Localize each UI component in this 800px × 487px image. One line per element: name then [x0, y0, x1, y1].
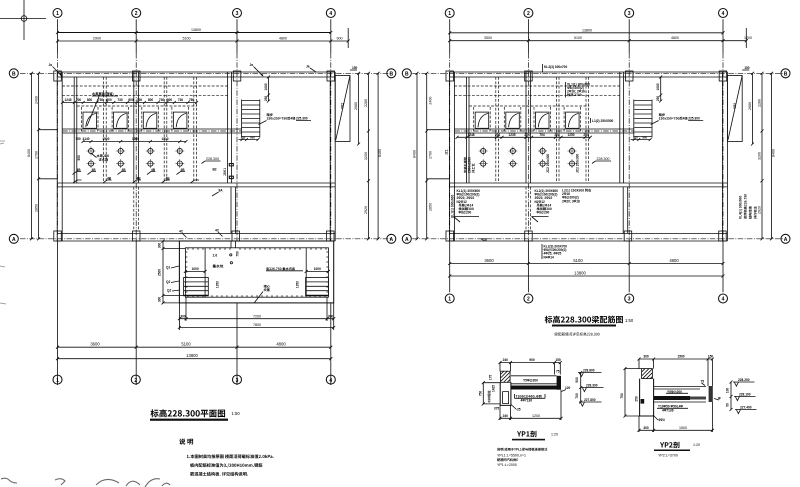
svg-text:700: 700 [575, 393, 579, 399]
svg-text:227.400: 227.400 [740, 406, 752, 410]
svg-text:2850: 2850 [429, 203, 433, 211]
svg-text:2920: 2920 [758, 206, 762, 214]
svg-text:1:50: 1:50 [232, 411, 241, 416]
svg-text:3500: 3500 [484, 36, 492, 40]
svg-text:150: 150 [708, 355, 714, 359]
svg-text:5100: 5100 [573, 258, 583, 263]
bottom grid bubble 3 [233, 375, 242, 384]
sump pit inner wall [185, 248, 328, 297]
svg-text:4B: 4B [151, 168, 156, 172]
grid bubble B left of right plan [402, 69, 411, 78]
svg-text:1000: 1000 [192, 267, 199, 271]
svg-text:2Φ20; 3Φ18: 2Φ20; 3Φ18 [562, 199, 580, 203]
svg-text:2000x2000: 2000x2000 [468, 157, 472, 173]
svg-text:175: 175 [489, 375, 493, 381]
svg-text:4: 4 [722, 11, 725, 17]
svg-text:700: 700 [76, 98, 82, 102]
YP2 left dim [624, 369, 626, 416]
svg-text:8400: 8400 [413, 150, 417, 158]
svg-text:240: 240 [503, 414, 509, 418]
YP1 title [517, 431, 536, 438]
svg-text:240: 240 [503, 358, 509, 362]
top dimension row total [58, 28, 331, 33]
svg-text:900: 900 [529, 358, 535, 362]
svg-text:2500: 2500 [158, 269, 162, 276]
left edge small marks [0, 141, 6, 304]
svg-text:900: 900 [337, 37, 343, 41]
grid bubble 2 top [132, 9, 141, 54]
svg-text:Y5Φ@200: Y5Φ@200 [523, 378, 538, 382]
svg-text:JC2 250x300: JC2 250x300 [575, 154, 579, 173]
YP2 right vertical dim [730, 382, 732, 410]
svg-text:1350: 1350 [295, 281, 299, 288]
svg-text:204: 204 [583, 133, 589, 137]
svg-text:B: B [12, 72, 16, 78]
svg-text:JSK1: JSK1 [223, 168, 227, 176]
svg-text:1510: 1510 [161, 137, 168, 141]
svg-text:4: 4 [329, 11, 332, 17]
top dimension row segments [56, 28, 350, 48]
svg-text:41B: 41B [481, 238, 488, 242]
sump 1000 dim right [305, 267, 330, 273]
svg-text:8400: 8400 [27, 149, 31, 157]
svg-text:8A: 8A [219, 189, 224, 193]
YP1 top dim [500, 362, 561, 364]
svg-text:1700: 1700 [34, 151, 38, 159]
svg-text:300: 300 [158, 297, 162, 303]
right plan right mid dim [758, 72, 764, 241]
svg-text:2850: 2850 [34, 204, 38, 212]
svg-text:13800: 13800 [191, 28, 201, 32]
svg-text:228.100: 228.100 [739, 393, 751, 397]
YP2 elevation flags [733, 382, 755, 386]
svg-text:2: 2 [134, 378, 137, 384]
svg-text:75: 75 [701, 380, 705, 384]
beam text cluster 3 [562, 189, 591, 204]
rotated labels beside bolts [464, 154, 580, 173]
svg-text:3600: 3600 [484, 258, 494, 263]
svg-text:Q1: Q1 [166, 266, 170, 270]
svg-text:2: 2 [135, 11, 138, 17]
YP1 beam bar [511, 386, 561, 390]
svg-text:228.200: 228.200 [738, 378, 750, 382]
right plan base geometry [412, 53, 783, 241]
svg-text:100: 100 [726, 388, 730, 394]
grid bubble A right of left plan [387, 234, 396, 243]
grid bubble 1 top-left plan [53, 9, 62, 54]
svg-text:8400: 8400 [378, 149, 382, 157]
right outer dim 8400 [377, 72, 382, 241]
bottom dim row total [56, 353, 332, 360]
bottom grid bubble 1 [53, 375, 62, 384]
sump 1000 dim left [184, 267, 207, 273]
svg-text:B2: B2 [213, 168, 217, 172]
right canopy dim [354, 72, 360, 146]
svg-text:2Φ16; 2Φ16: 2Φ16; 2Φ16 [567, 90, 585, 94]
grid bubble 3 top [625, 9, 634, 54]
svg-text:730: 730 [159, 98, 165, 102]
right plan pad dim row [456, 133, 592, 139]
svg-text:800: 800 [106, 98, 112, 102]
svg-text:4800: 4800 [671, 36, 679, 40]
svg-text:4140: 4140 [82, 137, 89, 141]
bottom grid bubble 4 [326, 375, 335, 384]
svg-text:150: 150 [555, 358, 561, 362]
YP2 slab lines [654, 387, 706, 389]
svg-text:Q2: Q2 [167, 289, 171, 293]
rotated beam note block right side [739, 194, 757, 219]
svg-text:N2Φ12: N2Φ12 [535, 200, 545, 204]
bolt dim row [75, 137, 187, 161]
left outer dim 8400 [27, 72, 33, 241]
faint pencil marks bottom left [1, 478, 170, 487]
svg-text:YPL1:L=5500,n=1: YPL1:L=5500,n=1 [497, 454, 526, 458]
svg-text:227.800: 227.800 [584, 398, 596, 402]
svg-text:1425: 1425 [492, 385, 496, 392]
label 41B on bottom wall [481, 238, 488, 242]
svg-text:228.300: 228.300 [206, 157, 219, 161]
svg-text:B: B [784, 72, 788, 78]
YP2 title [660, 442, 679, 449]
grid bubble A right of right plan [781, 234, 790, 243]
sump pit extension outer wall [179, 241, 333, 303]
svg-text:75: 75 [556, 370, 560, 374]
svg-text:800: 800 [148, 98, 154, 102]
svg-text:JZ1: JZ1 [445, 149, 449, 155]
svg-text:1:6: 1:6 [213, 254, 218, 258]
svg-text:2400: 2400 [429, 97, 433, 105]
survey crosshair top-left [0, 0, 46, 40]
svg-text:204: 204 [554, 133, 560, 137]
svg-text:2920: 2920 [364, 206, 368, 214]
YP1 left dims [482, 383, 484, 404]
svg-text:4C: 4C [179, 230, 184, 234]
svg-text:4B: 4B [92, 168, 97, 172]
svg-text:228.300: 228.300 [586, 384, 598, 388]
svg-text:5100: 5100 [574, 36, 582, 40]
sump stair right [306, 278, 329, 296]
svg-text:1700: 1700 [429, 151, 433, 159]
svg-text:4B: 4B [122, 168, 127, 172]
beam text cluster 2 [532, 189, 559, 222]
svg-text:B: B [405, 72, 409, 78]
svg-text:Φ8@200: Φ8@200 [459, 211, 472, 215]
elevation 228.300 right plan [592, 157, 611, 164]
svg-text:4800: 4800 [279, 37, 287, 41]
bottom grid extension lines [58, 241, 331, 385]
svg-text:1350: 1350 [215, 281, 219, 288]
bottom dim row segments [56, 342, 332, 349]
grid bubble 2 top [524, 9, 533, 54]
svg-text:500: 500 [575, 377, 579, 383]
pad dim row [61, 98, 198, 104]
svg-text:1250: 1250 [567, 133, 574, 137]
svg-text:750: 750 [75, 137, 81, 141]
svg-text:A: A [405, 237, 409, 243]
svg-text:300: 300 [158, 243, 162, 249]
sump bottom dim 7800 [178, 323, 335, 329]
svg-text:4B: 4B [137, 177, 142, 181]
svg-text:4800: 4800 [276, 342, 286, 347]
svg-text:1: 1 [56, 11, 59, 17]
svg-text:730: 730 [178, 98, 184, 102]
svg-text:1248: 1248 [467, 133, 474, 137]
sump stair left [184, 278, 209, 296]
svg-text:1500: 1500 [677, 355, 684, 359]
svg-text:800: 800 [167, 98, 173, 102]
svg-text:2680: 2680 [748, 102, 752, 110]
svg-text:3: 3 [628, 297, 631, 303]
left plan base geometry [20, 53, 391, 241]
svg-text:900: 900 [77, 155, 81, 161]
pump label cluster [92, 154, 109, 162]
svg-text:2400: 2400 [34, 96, 38, 104]
svg-text:3: 3 [236, 378, 239, 384]
svg-text:5100: 5100 [181, 342, 191, 347]
right plan left outer dim 8400 [413, 72, 419, 241]
grid bubble A left of right plan [402, 234, 411, 243]
svg-text:1235: 1235 [508, 133, 515, 137]
svg-text:A: A [389, 237, 393, 243]
svg-text:YP2:L=3700: YP2:L=3700 [658, 454, 678, 458]
svg-text:KL1(1) 300x600: KL1(1) 300x600 [451, 195, 455, 218]
svg-text:204: 204 [495, 133, 501, 137]
svg-text:1000: 1000 [314, 267, 321, 271]
YP2 wall hatched [642, 369, 653, 379]
svg-text:250: 250 [635, 396, 639, 402]
svg-text:4: 4 [722, 297, 725, 303]
svg-text:1500: 1500 [132, 137, 139, 141]
svg-text:3: 3 [236, 11, 239, 17]
sump wall hatch ticks [185, 248, 328, 297]
svg-text:N4Φ14: N4Φ14 [544, 255, 554, 259]
grid bubble 3 top [233, 9, 242, 54]
right top dim total 13800 [448, 28, 724, 34]
grid bubble 1 top right plan [445, 9, 454, 54]
below-wall beam cluster KL2 [542, 244, 567, 259]
svg-text:Ja: Ja [306, 65, 310, 69]
svg-text:5100: 5100 [183, 37, 191, 41]
pump base label [87, 92, 118, 126]
svg-text:2900: 2900 [93, 37, 101, 41]
svg-text:1:20: 1:20 [551, 433, 558, 437]
right plan canopy dim [748, 72, 754, 146]
svg-text:1200: 1200 [744, 36, 752, 40]
right bottom dim segments [448, 258, 724, 265]
YP2 bottom dim [639, 429, 712, 431]
YP1 bottom dim [500, 417, 561, 419]
beam label L1 right of pads [591, 118, 614, 123]
svg-text:N2Φ12: N2Φ12 [457, 200, 467, 204]
svg-text:375: 375 [494, 407, 500, 411]
svg-text:4Φ7136: 4Φ7136 [662, 409, 674, 413]
svg-text:KL4(1) 300x600: KL4(1) 300x600 [739, 196, 743, 219]
svg-text:Ja: Ja [49, 63, 53, 67]
YP2 beam bar [654, 396, 690, 400]
svg-text:800: 800 [87, 98, 93, 102]
svg-text:300: 300 [180, 314, 186, 318]
right plan right outer dim 8400 [770, 72, 776, 241]
left inner dim segments [34, 72, 57, 241]
svg-text:JC2 250x300: JC2 250x300 [546, 154, 550, 173]
right plan bottom extension lines [450, 241, 723, 292]
right mid dim segments [364, 72, 370, 241]
svg-text:Φ8@200: Φ8@200 [537, 211, 550, 215]
svg-text:B: B [389, 72, 393, 78]
left plan title [150, 409, 240, 421]
small leader labels 4B below bolts [73, 172, 200, 184]
right plan title [545, 316, 634, 336]
right top dim segments [448, 28, 752, 48]
right bottom bubble 1 [445, 294, 454, 303]
svg-text:4Φ7136: 4Φ7136 [521, 398, 533, 402]
svg-text:4B: 4B [166, 177, 171, 181]
svg-text:1:20: 1:20 [693, 443, 700, 447]
svg-text:3: 3 [628, 11, 631, 17]
svg-text:4C: 4C [215, 229, 220, 233]
svg-text:A: A [12, 237, 16, 243]
bottom grid bubble 2 [131, 375, 140, 384]
sump bay walls [205, 248, 306, 297]
svg-text:2280: 2280 [364, 99, 368, 107]
right plan left inner dim [425, 72, 449, 241]
svg-text:1:50: 1:50 [625, 318, 634, 323]
section marks at stair hall wall [212, 164, 233, 197]
svg-text:1245: 1245 [64, 98, 71, 102]
svg-text:4B: 4B [107, 177, 112, 181]
YP2 top dim [639, 358, 712, 360]
sump left side dim [158, 240, 186, 305]
svg-text:KL3(3) 300x700: KL3(3) 300x700 [544, 65, 567, 69]
grid bubble B right of right plan [781, 69, 790, 78]
YP2 column [640, 379, 654, 416]
svg-text:3600: 3600 [90, 342, 100, 347]
svg-text:3200: 3200 [364, 152, 368, 160]
svg-text:730: 730 [117, 98, 123, 102]
wall stub into sump [231, 241, 236, 248]
tiny labels on leaders [77, 168, 186, 181]
svg-text:1200: 1200 [532, 414, 540, 418]
YP1 column below [500, 382, 511, 405]
svg-text:1500: 1500 [102, 137, 109, 141]
svg-text:1500: 1500 [679, 426, 687, 430]
grid bubble B right of left plan [387, 69, 396, 78]
ja labels above top wall [49, 63, 317, 77]
svg-text:730: 730 [137, 98, 143, 102]
YP1 right vertical dim [580, 373, 582, 403]
beam label KL3 top [543, 64, 568, 72]
svg-text:YP1:L=2000: YP1:L=2000 [497, 463, 517, 467]
svg-text:7200: 7200 [253, 314, 261, 318]
right bottom bubble 3 [625, 294, 634, 303]
svg-text:704: 704 [539, 133, 545, 137]
svg-text:750: 750 [620, 393, 624, 399]
right bottom dim total [448, 270, 724, 277]
svg-text:8400: 8400 [772, 149, 776, 157]
svg-text:A: A [784, 237, 788, 243]
svg-text:13800: 13800 [186, 353, 198, 358]
svg-text:780: 780 [189, 98, 195, 102]
YP1 notes [497, 448, 547, 451]
grid bubble 4 top [326, 9, 335, 54]
elevation 228.300 left plan [202, 157, 221, 164]
svg-text:Ja: Ja [250, 63, 254, 67]
right bottom bubble 2 [524, 294, 533, 303]
svg-text:1: 1 [56, 378, 59, 384]
svg-text:300: 300 [643, 426, 649, 430]
svg-text:4800: 4800 [669, 258, 679, 263]
svg-text:800: 800 [128, 98, 134, 102]
svg-text:1: 1 [448, 11, 451, 17]
beam text cluster 1 [454, 189, 481, 222]
sump center labels [213, 251, 304, 302]
svg-text:2280: 2280 [758, 99, 762, 107]
svg-text:13800: 13800 [574, 270, 586, 275]
grid bubble A left [9, 234, 18, 243]
svg-text:25: 25 [517, 408, 521, 412]
grid bubble 4 top [719, 9, 728, 54]
svg-text:750: 750 [235, 251, 239, 257]
svg-text:228.300: 228.300 [597, 157, 610, 161]
sump bottom dim 7200 [178, 297, 335, 330]
YP1 wall hatched [501, 371, 511, 382]
svg-text:1: 1 [448, 297, 451, 303]
svg-text:300: 300 [643, 355, 649, 359]
YP1 beam slab top line [511, 375, 557, 377]
YP1 beam end upturn [557, 376, 561, 390]
svg-text:4: 4 [329, 378, 332, 384]
svg-text:13800: 13800 [582, 28, 592, 32]
svg-text:7800: 7800 [253, 323, 261, 327]
svg-text:204: 204 [524, 133, 530, 137]
svg-text:6Φ4: 6Φ4 [659, 418, 665, 422]
svg-text:3200: 3200 [758, 152, 762, 160]
svg-text:750: 750 [479, 391, 483, 397]
svg-text:L1(2) 250X500: L1(2) 250X500 [592, 119, 613, 123]
svg-text:730: 730 [98, 98, 104, 102]
grid bubble B left [9, 69, 18, 78]
right plan top text block [566, 82, 591, 98]
svg-text:2: 2 [527, 11, 530, 17]
right bottom bubble 4 [719, 294, 728, 303]
YP2 end upturn [709, 386, 713, 402]
YP1 elevation flags [578, 369, 604, 407]
svg-text:2: 2 [527, 297, 530, 303]
svg-text:2680: 2680 [354, 102, 358, 110]
4C labels bottom wall [179, 229, 223, 238]
svg-text:4B: 4B [77, 168, 82, 172]
svg-text:50: 50 [726, 403, 730, 407]
svg-text:228.800: 228.800 [583, 369, 595, 373]
svg-text:4B: 4B [181, 168, 186, 172]
svg-text:Q2: Q2 [166, 280, 170, 284]
